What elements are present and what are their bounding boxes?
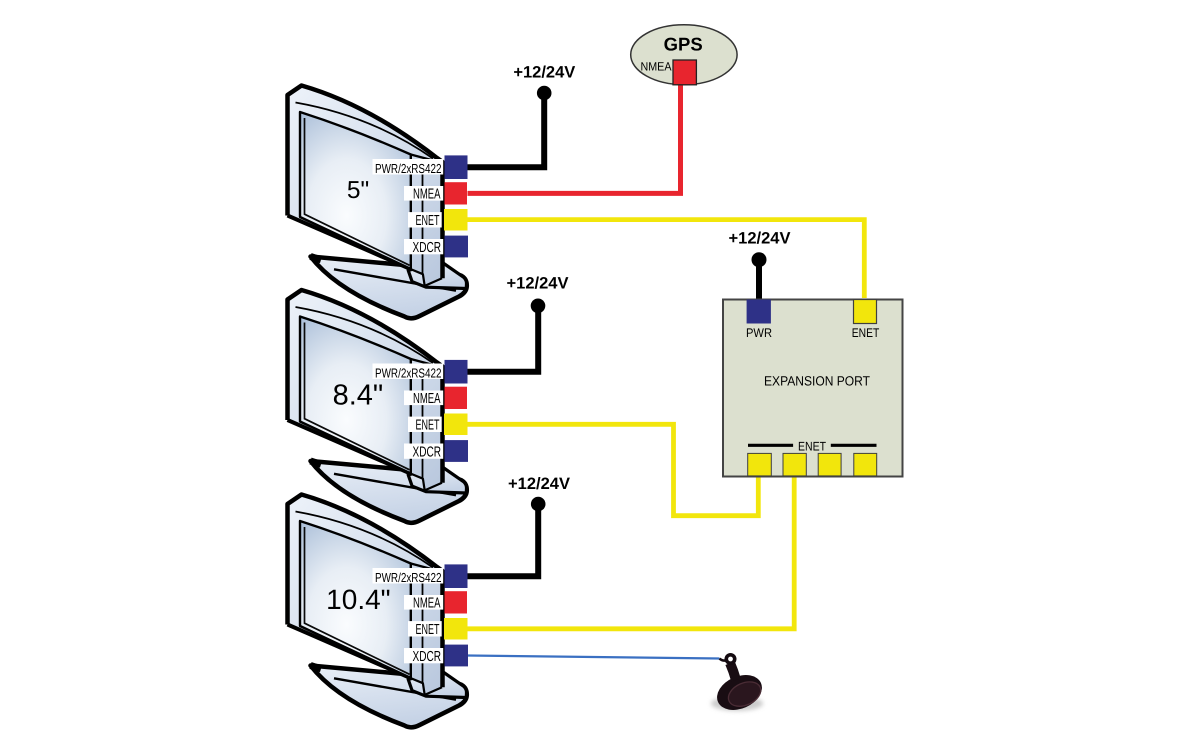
- monitor 5": [288, 86, 469, 319]
- GPS NMEA red square: [673, 60, 696, 85]
- svg-text:10.4": 10.4": [326, 584, 390, 615]
- svg-text:NMEA: NMEA: [641, 60, 672, 74]
- expansion ENET top square: [854, 300, 877, 324]
- power dot monitor1: [537, 86, 552, 101]
- wire: yellow ENET monitor3 to expansion bottom2: [468, 476, 795, 629]
- expansion bottom right dash: [831, 444, 877, 447]
- power dot monitor3: [531, 497, 546, 512]
- svg-text:PWR: PWR: [746, 326, 772, 340]
- wire: yellow ENET monitor2 to expansion bottom1: [468, 424, 759, 515]
- wire: black power monitor3: [468, 504, 539, 576]
- GPS ellipse: [631, 25, 737, 85]
- wire: blue XDCR monitor3 to transducer: [468, 656, 720, 659]
- expansion bottom left dash: [748, 444, 793, 447]
- wire: black power expansion port: [756, 260, 762, 300]
- svg-text:ENET: ENET: [798, 440, 826, 454]
- svg-text:+12/24V: +12/24V: [508, 475, 570, 493]
- transducer hook: [726, 655, 734, 663]
- svg-text:8.4": 8.4": [333, 379, 384, 411]
- monitor 8.4": [288, 290, 469, 523]
- expansion PWR square: [747, 300, 771, 324]
- svg-text:5": 5": [347, 177, 369, 204]
- expansion bottom ENET square 4: [854, 453, 877, 476]
- transducer shadow: [711, 696, 763, 711]
- transducer stem: [730, 663, 736, 680]
- svg-text:EXPANSION PORT: EXPANSION PORT: [764, 374, 870, 389]
- svg-text:ENET: ENET: [852, 326, 880, 340]
- transducer body: [712, 668, 768, 716]
- expansion bottom ENET square 2: [783, 453, 806, 476]
- power dot monitor2: [531, 299, 546, 314]
- expansion port box: [723, 300, 903, 477]
- expansion bottom ENET square 1: [748, 453, 772, 476]
- wire: black power monitor1: [468, 93, 545, 167]
- wire: black power monitor2: [468, 306, 539, 372]
- monitor 10.4": [288, 495, 469, 728]
- svg-text:+12/24V: +12/24V: [507, 275, 569, 293]
- svg-text:+12/24V: +12/24V: [729, 230, 791, 248]
- wire: red NMEA monitor1 to GPS: [468, 82, 681, 193]
- power dot expansion port: [752, 252, 767, 267]
- svg-text:+12/24V: +12/24V: [513, 64, 575, 82]
- svg-text:GPS: GPS: [664, 34, 703, 55]
- expansion bottom ENET square 3: [818, 453, 841, 476]
- wire: yellow ENET monitor1 to expansion top: [468, 220, 865, 298]
